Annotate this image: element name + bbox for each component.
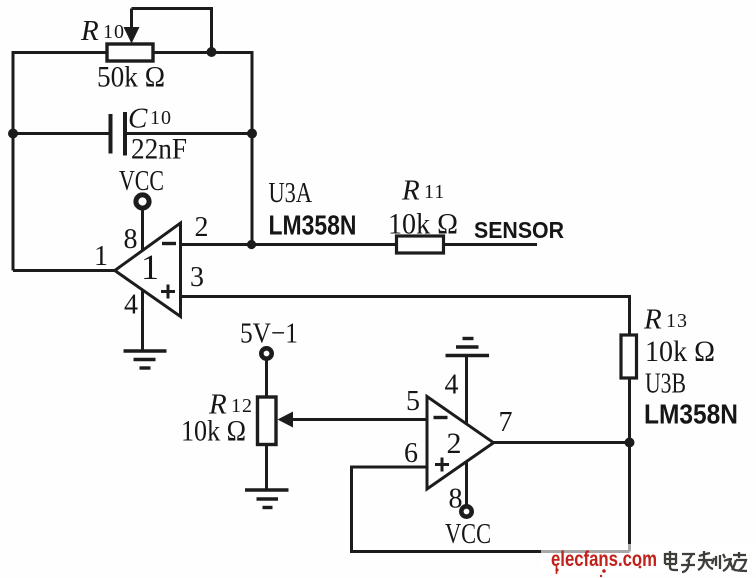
svg-text:C: C — [128, 103, 148, 135]
ground above U3B pin 4 — [446, 339, 490, 356]
svg-text:7: 7 — [499, 407, 513, 438]
op-amp U3A plus input mark — [161, 285, 175, 299]
resistor R11 body — [397, 236, 444, 253]
svg-text:VCC: VCC — [119, 165, 164, 197]
resistor R13 body — [621, 335, 637, 378]
svg-text:1: 1 — [94, 241, 108, 272]
wire 5V-1 stem — [265, 360, 268, 398]
potentiometer R12 body — [258, 397, 277, 445]
wire left vertical — [12, 51, 15, 271]
wire right vertical — [251, 51, 254, 246]
potentiometer R12 wiper arrow — [278, 412, 294, 428]
junction node right cap row — [247, 129, 257, 139]
junction node at R10 right — [207, 47, 217, 57]
svg-text:R: R — [80, 15, 99, 47]
svg-text:SENSOR: SENSOR — [474, 217, 564, 243]
wire R13 bottom vertical — [628, 378, 631, 552]
svg-text:2: 2 — [195, 212, 209, 243]
svg-text:10: 10 — [103, 21, 125, 43]
svg-text:5: 5 — [406, 386, 420, 417]
watermark chinese characters — [665, 551, 747, 572]
svg-text:1: 1 — [141, 247, 159, 287]
wire R11 to SENSOR — [444, 243, 537, 246]
svg-text:10k Ω: 10k Ω — [388, 208, 458, 241]
wire U3B pin 6 feedback loop — [352, 467, 630, 552]
wire U3A pin 2 — [181, 243, 397, 246]
svg-text:4: 4 — [124, 290, 138, 321]
op-amp U3A minus input mark — [162, 242, 176, 245]
svg-text:50k Ω: 50k Ω — [97, 61, 165, 94]
svg-text:U3B: U3B — [645, 368, 686, 400]
wire top feedback loop — [132, 9, 212, 53]
resistor R10 body — [107, 44, 153, 61]
svg-text:10k Ω: 10k Ω — [645, 335, 715, 368]
op-amp U3B body — [427, 397, 494, 490]
wire U3A pin 3 to R13 — [181, 297, 630, 336]
svg-text:11: 11 — [424, 181, 445, 203]
capacitor C10 plates — [111, 112, 126, 156]
svg-text:6: 6 — [404, 438, 418, 469]
svg-text:4: 4 — [445, 370, 459, 401]
op-amp U3B minus input mark — [434, 416, 448, 419]
wire U3A pin 4 stem — [141, 291, 144, 351]
ground below U3A pin 4 — [124, 351, 167, 368]
svg-text:10: 10 — [150, 107, 172, 129]
wire U3B pin 4 stem — [465, 356, 468, 424]
wire VCC stem pin 8 — [141, 208, 144, 250]
wire U3B pin 8 stem — [465, 462, 468, 506]
wire U3A output pin 1 — [13, 269, 115, 272]
watermark background band — [541, 544, 756, 572]
svg-text:LM358N: LM358N — [269, 210, 357, 241]
wire U3B pin 7 — [494, 441, 630, 444]
VCC terminal bottom — [461, 506, 471, 516]
op-amp U3B plus input mark — [435, 458, 449, 472]
svg-text:R: R — [643, 304, 662, 336]
potentiometer wiper arrow R10 — [124, 27, 140, 44]
svg-text:5V−1: 5V−1 — [240, 318, 298, 350]
svg-text:8: 8 — [124, 224, 138, 255]
svg-text:22nF: 22nF — [131, 133, 187, 166]
wire R12 wiper to U3B pin 5 — [291, 418, 427, 421]
svg-text:U3A: U3A — [269, 177, 313, 209]
wire main top row left segment — [13, 51, 106, 54]
svg-text:10k Ω: 10k Ω — [181, 415, 246, 448]
wire R10 wiper stem — [130, 9, 133, 29]
ground below R12 — [245, 490, 289, 508]
watermark drip marks — [555, 566, 641, 578]
svg-text:3: 3 — [190, 262, 204, 293]
svg-text:R: R — [401, 175, 420, 207]
junction node pin 2 row — [247, 240, 256, 249]
wire main top row right segment — [153, 51, 252, 54]
wire capacitor row left — [13, 132, 109, 135]
op-amp U3A body — [115, 223, 181, 317]
svg-text:LM358N: LM358N — [644, 399, 738, 430]
junction node pin 7 row — [625, 438, 635, 448]
svg-text:13: 13 — [666, 310, 688, 332]
wire capacitor row right — [127, 132, 252, 135]
svg-text:VCC: VCC — [445, 518, 491, 550]
svg-text:2: 2 — [447, 427, 462, 460]
wire R12 bottom stem — [265, 445, 268, 490]
junction node left cap row — [8, 129, 18, 139]
